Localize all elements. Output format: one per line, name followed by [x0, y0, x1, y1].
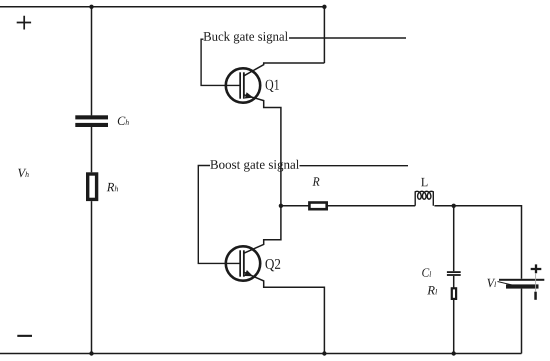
transistor Q2 [226, 206, 325, 354]
label Ch [118, 117, 129, 125]
capacitor Cl [447, 271, 461, 276]
resistor Rh [88, 174, 97, 199]
resistor R [309, 203, 326, 210]
plus terminal top-left [17, 16, 31, 30]
resistor Rl [452, 288, 456, 299]
wire Ch to Rh [91, 127, 93, 172]
label Cl [422, 268, 431, 276]
node output junction [452, 204, 456, 208]
node top-left junction [89, 5, 93, 9]
node midpoint junction (Q1 emitter / Q2 collector / R) [279, 204, 283, 208]
wire left branch upper [91, 7, 93, 116]
wire from top-right corner down to Q1 collector [323, 7, 325, 63]
label Rl [427, 286, 437, 294]
wire buck gate signal line [289, 37, 406, 39]
transistor Q1 [226, 63, 325, 206]
wire battery to bottom bus [521, 289, 523, 354]
wire R to inductor [328, 205, 415, 207]
node bottom-right junction [452, 351, 456, 355]
wire inductor to right corner and down to battery [434, 206, 521, 279]
wire top bus [0, 6, 324, 8]
label Buck gate signal [204, 32, 288, 44]
minus terminal bottom-left [17, 335, 32, 337]
label Rh [107, 183, 118, 191]
label Vh [18, 169, 29, 178]
wire left branch lower [91, 201, 93, 353]
label Vl [487, 279, 496, 288]
battery Vl bottom plate [506, 284, 539, 288]
battery Vl top plate [499, 279, 544, 281]
label R [312, 177, 319, 185]
node bottom-middle junction [322, 351, 326, 355]
battery faint axis line [535, 273, 537, 291]
label Vl leader line [498, 282, 514, 286]
inductor L [415, 191, 433, 205]
wire Rl to bottom bus [453, 300, 455, 354]
battery plus mark [531, 264, 542, 273]
label Boost gate signal [210, 160, 299, 172]
node top-right corner [322, 5, 326, 9]
wire output node down to Cl [453, 206, 455, 271]
wire boost gate signal line [300, 165, 409, 167]
wire bottom bus [0, 353, 522, 355]
wire boost gate bracket to Q2 gate [198, 166, 240, 264]
label Q2 [265, 259, 280, 271]
node bottom-left junction [89, 351, 93, 355]
wire midpoint to resistor R [281, 205, 310, 207]
battery minus dash mark [534, 292, 537, 300]
wire buck gate bracket to Q1 gate [201, 39, 240, 85]
wire Cl to Rl [453, 276, 455, 288]
label L [421, 178, 427, 186]
label Q1 [266, 80, 279, 92]
capacitor Ch [75, 115, 108, 127]
